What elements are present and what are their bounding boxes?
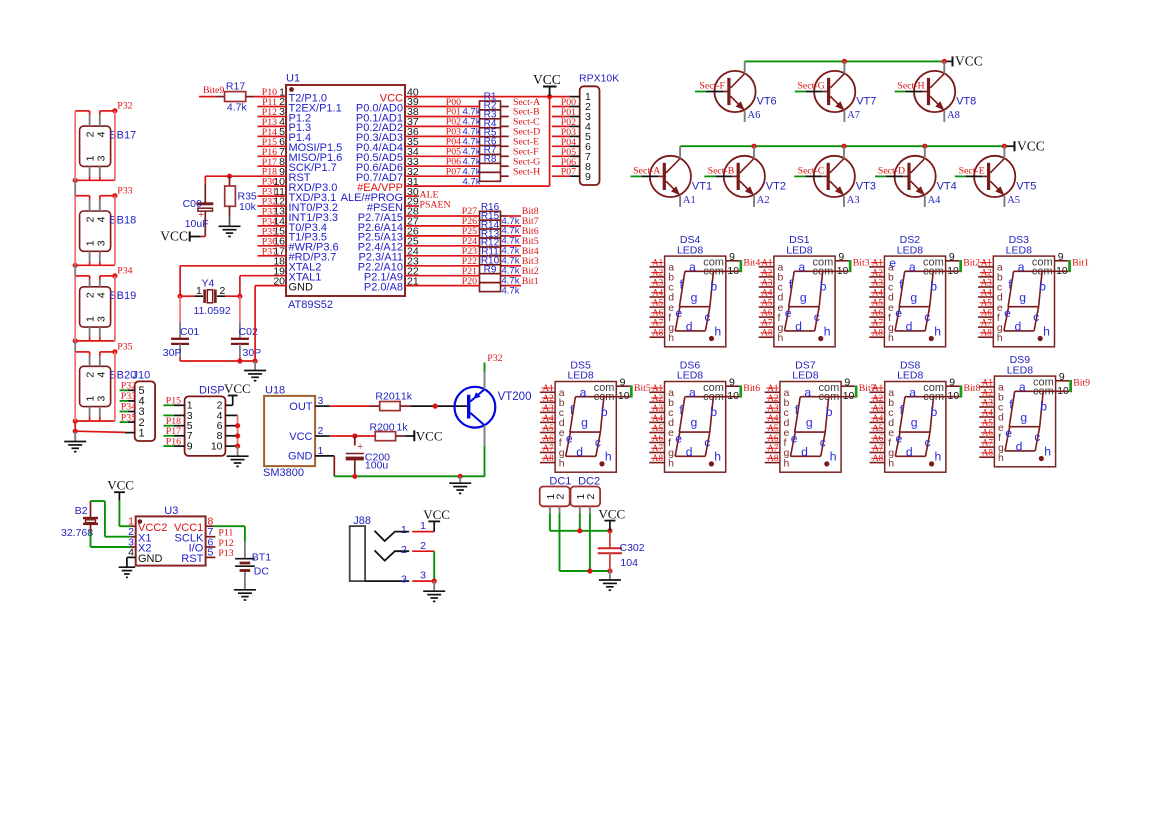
svg-text:A2: A2 (757, 195, 770, 206)
svg-text:VCC: VCC (224, 381, 251, 396)
svg-text:10: 10 (211, 441, 223, 453)
svg-text:h: h (1044, 444, 1051, 458)
svg-text:DC2: DC2 (578, 476, 600, 488)
svg-text:d: d (801, 445, 808, 459)
svg-text:h: h (668, 457, 674, 469)
svg-text:c: c (595, 435, 601, 449)
svg-text:a: a (909, 386, 916, 400)
svg-text:4: 4 (95, 372, 107, 378)
svg-text:g: g (800, 290, 807, 304)
svg-text:f: f (795, 403, 799, 417)
svg-text:VCC: VCC (598, 507, 625, 522)
svg-text:Bit1: Bit1 (1072, 258, 1089, 269)
svg-text:VCC: VCC (416, 428, 443, 443)
svg-text:A1: A1 (683, 195, 696, 206)
svg-text:g: g (1019, 290, 1026, 304)
svg-text:e: e (675, 432, 682, 446)
svg-text:LED8: LED8 (1007, 364, 1033, 376)
svg-text:VCC: VCC (289, 431, 312, 443)
svg-text:Sect-F: Sect-F (699, 81, 725, 92)
svg-text:3: 3 (95, 240, 107, 246)
svg-text:GND: GND (288, 451, 313, 463)
svg-text:2: 2 (555, 494, 567, 500)
svg-text:10k: 10k (239, 201, 257, 213)
svg-text:Bit6: Bit6 (743, 383, 760, 394)
svg-text:Sect-G: Sect-G (797, 81, 824, 92)
svg-text:9: 9 (1059, 371, 1065, 383)
svg-text:P35: P35 (121, 412, 136, 423)
svg-text:VCC: VCC (160, 229, 188, 244)
svg-text:h: h (997, 332, 1003, 344)
svg-text:9: 9 (949, 376, 955, 388)
svg-text:LED8: LED8 (897, 370, 923, 382)
svg-text:SB19: SB19 (109, 290, 136, 302)
svg-text:LED8: LED8 (677, 370, 703, 382)
svg-text:BT1: BT1 (252, 552, 271, 564)
svg-text:h: h (998, 452, 1004, 464)
svg-text:R8: R8 (484, 154, 497, 165)
svg-text:LED8: LED8 (567, 370, 593, 382)
svg-text:e: e (889, 256, 896, 270)
svg-text:LED8: LED8 (677, 244, 703, 256)
svg-text:d: d (1016, 440, 1023, 454)
svg-text:P13: P13 (218, 548, 233, 559)
svg-text:h: h (714, 450, 721, 464)
svg-text:d: d (906, 445, 913, 459)
svg-text:a: a (689, 386, 696, 400)
svg-text:32.768: 32.768 (61, 527, 93, 539)
svg-text:Sect-B: Sect-B (708, 166, 735, 177)
svg-text:A7: A7 (847, 110, 860, 121)
svg-text:VCC: VCC (107, 477, 134, 492)
svg-text:h: h (668, 332, 674, 344)
svg-text:R200: R200 (370, 422, 395, 434)
svg-text:P34: P34 (121, 402, 136, 413)
svg-text:P33: P33 (121, 391, 136, 402)
svg-text:a: a (909, 260, 916, 274)
svg-text:4.7k: 4.7k (227, 102, 248, 114)
svg-text:b: b (710, 280, 717, 294)
svg-text:U3: U3 (164, 505, 178, 517)
svg-text:RPX10K: RPX10K (579, 73, 619, 85)
svg-text:h: h (935, 450, 942, 464)
svg-text:VCC: VCC (533, 72, 561, 87)
svg-text:h: h (714, 324, 721, 338)
svg-text:b: b (1039, 280, 1046, 294)
svg-text:4.7k: 4.7k (502, 285, 520, 296)
svg-text:e: e (1004, 306, 1011, 320)
svg-text:g: g (691, 290, 698, 304)
svg-text:100u: 100u (365, 460, 389, 472)
svg-text:VT6: VT6 (757, 96, 777, 108)
svg-text:P35: P35 (117, 342, 132, 353)
svg-text:e: e (791, 432, 798, 446)
svg-text:4.7k: 4.7k (463, 176, 481, 187)
svg-text:h: h (888, 332, 894, 344)
svg-text:Bite9: Bite9 (203, 85, 224, 96)
svg-text:b: b (601, 405, 608, 419)
svg-text:A5: A5 (1007, 195, 1020, 206)
svg-text:e: e (896, 432, 903, 446)
svg-text:1k: 1k (397, 422, 409, 434)
svg-text:b: b (826, 405, 833, 419)
svg-text:P32: P32 (117, 101, 132, 112)
svg-text:h: h (888, 457, 894, 469)
svg-text:LED8: LED8 (792, 370, 818, 382)
svg-text:f: f (789, 277, 793, 291)
svg-text:OUT: OUT (289, 401, 313, 413)
svg-text:9: 9 (729, 376, 735, 388)
svg-text:RST: RST (181, 553, 203, 565)
svg-text:d: d (686, 320, 693, 334)
svg-text:AT89S52: AT89S52 (288, 299, 333, 311)
svg-text:g: g (581, 416, 588, 430)
svg-text:4: 4 (95, 216, 107, 222)
svg-text:c: c (820, 435, 826, 449)
svg-text:VT8: VT8 (956, 96, 976, 108)
svg-text:P15: P15 (166, 396, 181, 407)
svg-text:+: + (357, 441, 363, 453)
svg-text:g: g (691, 416, 698, 430)
svg-text:9: 9 (838, 251, 844, 263)
svg-text:b: b (1040, 400, 1047, 414)
svg-text:e: e (566, 432, 573, 446)
svg-text:e: e (675, 306, 682, 320)
svg-text:c: c (1033, 310, 1039, 324)
svg-text:b: b (931, 405, 938, 419)
svg-text:Sect-D: Sect-D (878, 166, 905, 177)
svg-text:9: 9 (844, 376, 850, 388)
svg-text:P20: P20 (462, 276, 477, 287)
svg-text:A8: A8 (947, 110, 960, 121)
svg-text:c: c (924, 310, 930, 324)
svg-text:VCC: VCC (1017, 138, 1045, 153)
svg-text:Bit2: Bit2 (963, 258, 980, 269)
svg-text:B2: B2 (75, 505, 88, 517)
svg-text:VT4: VT4 (937, 180, 957, 192)
svg-text:2: 2 (401, 544, 407, 556)
svg-text:f: f (1009, 397, 1013, 411)
svg-text:VT1: VT1 (692, 180, 712, 192)
svg-text:h: h (605, 450, 612, 464)
svg-text:Bit4: Bit4 (743, 258, 760, 269)
svg-text:P32: P32 (487, 353, 502, 364)
svg-text:LED8: LED8 (897, 244, 923, 256)
svg-text:Bit1: Bit1 (522, 276, 539, 287)
svg-text:P12: P12 (218, 538, 233, 549)
svg-text:Sect-H: Sect-H (513, 166, 540, 177)
svg-text:VT2: VT2 (766, 180, 786, 192)
svg-text:a: a (798, 260, 805, 274)
svg-text:h: h (778, 332, 784, 344)
svg-text:P07: P07 (561, 167, 576, 178)
svg-text:2: 2 (420, 540, 426, 552)
svg-text:P16: P16 (166, 436, 181, 447)
svg-text:10uF: 10uF (185, 218, 209, 230)
svg-text:SM3800: SM3800 (263, 467, 304, 479)
svg-text:DC: DC (254, 565, 270, 577)
svg-text:d: d (1015, 320, 1022, 334)
svg-text:11.0592: 11.0592 (194, 305, 231, 317)
svg-text:a: a (689, 260, 696, 274)
svg-text:g: g (911, 416, 918, 430)
svg-text:P32: P32 (121, 381, 136, 392)
svg-text:d: d (686, 445, 693, 459)
svg-text:h: h (1043, 324, 1050, 338)
svg-text:104: 104 (620, 557, 638, 569)
svg-text:9: 9 (585, 171, 591, 183)
svg-text:VT3: VT3 (856, 180, 876, 192)
svg-text:SB17: SB17 (109, 130, 136, 142)
svg-text:Bit9: Bit9 (1073, 378, 1090, 389)
svg-text:h: h (784, 457, 790, 469)
svg-text:1: 1 (420, 520, 426, 532)
svg-text:1k: 1k (401, 390, 413, 402)
svg-text:Sect-H: Sect-H (897, 81, 924, 92)
svg-text:VT7: VT7 (856, 96, 876, 108)
svg-text:c: c (704, 310, 710, 324)
svg-text:c: c (1034, 430, 1040, 444)
svg-text:d: d (906, 320, 913, 334)
svg-text:C01: C01 (180, 326, 199, 338)
svg-text:2: 2 (585, 494, 597, 500)
svg-text:3: 3 (95, 155, 107, 161)
svg-text:VT200: VT200 (498, 391, 532, 403)
svg-text:Sect-C: Sect-C (798, 166, 825, 177)
svg-text:LED8: LED8 (786, 244, 812, 256)
svg-text:R17: R17 (226, 81, 245, 93)
svg-text:a: a (1019, 380, 1026, 394)
svg-text:VT5: VT5 (1016, 180, 1036, 192)
svg-text:9: 9 (620, 376, 626, 388)
svg-text:a: a (1018, 260, 1025, 274)
svg-text:Sect-A: Sect-A (633, 166, 660, 177)
svg-text:A3: A3 (847, 195, 860, 206)
svg-text:Bit8: Bit8 (964, 383, 981, 394)
svg-text:h: h (934, 324, 941, 338)
svg-text:a: a (804, 386, 811, 400)
svg-text:Bit5: Bit5 (634, 383, 651, 394)
svg-text:d: d (576, 445, 583, 459)
svg-text:C00: C00 (183, 198, 202, 210)
svg-text:a: a (580, 386, 587, 400)
svg-text:g: g (1020, 410, 1027, 424)
svg-text:C302: C302 (620, 542, 645, 554)
svg-text:Y4: Y4 (202, 278, 215, 290)
svg-text:g: g (806, 416, 813, 430)
svg-text:P34: P34 (117, 266, 132, 277)
svg-text:PSAEN: PSAEN (420, 200, 451, 211)
svg-text:R9: R9 (484, 264, 497, 275)
svg-text:1: 1 (139, 427, 145, 439)
svg-text:30P: 30P (163, 347, 182, 359)
svg-text:9: 9 (949, 251, 955, 263)
svg-text:b: b (710, 405, 717, 419)
svg-text:30P: 30P (243, 347, 262, 359)
svg-text:9: 9 (729, 251, 735, 263)
svg-text:b: b (930, 280, 937, 294)
svg-text:c: c (814, 310, 820, 324)
svg-text:9: 9 (1058, 251, 1064, 263)
svg-text:9: 9 (187, 441, 193, 453)
svg-text:P33: P33 (117, 186, 132, 197)
svg-text:4: 4 (95, 292, 107, 298)
svg-text:J88: J88 (353, 515, 371, 527)
svg-text:P2.0/A8: P2.0/A8 (364, 281, 403, 293)
svg-text:A4: A4 (928, 195, 942, 206)
svg-text:P07: P07 (446, 166, 461, 177)
svg-text:1: 1 (401, 524, 407, 536)
svg-text:3: 3 (420, 570, 426, 582)
svg-text:2: 2 (220, 285, 226, 297)
svg-text:VCC: VCC (955, 54, 983, 69)
svg-text:SB18: SB18 (109, 214, 136, 226)
svg-text:LED8: LED8 (1006, 244, 1032, 256)
svg-text:e: e (785, 306, 792, 320)
svg-text:Sect-E: Sect-E (959, 166, 985, 177)
svg-text:c: c (704, 435, 710, 449)
svg-text:e: e (895, 306, 902, 320)
svg-text:f: f (899, 277, 903, 291)
svg-text:h: h (559, 457, 565, 469)
svg-text:e: e (1005, 426, 1012, 440)
svg-text:4: 4 (95, 131, 107, 137)
svg-text:h: h (830, 450, 837, 464)
svg-text:3: 3 (95, 316, 107, 322)
svg-text:d: d (795, 320, 802, 334)
svg-text:3: 3 (95, 396, 107, 402)
svg-text:VCC: VCC (423, 507, 450, 522)
svg-text:3: 3 (401, 574, 407, 586)
svg-text:GND: GND (289, 281, 314, 293)
svg-text:DISP: DISP (199, 384, 225, 396)
svg-text:U1: U1 (286, 73, 300, 85)
svg-text:R201: R201 (375, 390, 400, 402)
svg-text:DC1: DC1 (549, 476, 571, 488)
svg-text:c: c (925, 435, 931, 449)
svg-text:U18: U18 (265, 384, 285, 396)
svg-text:g: g (910, 290, 917, 304)
svg-text:h: h (824, 324, 831, 338)
svg-text:GND: GND (138, 553, 163, 565)
svg-text:A6: A6 (748, 110, 761, 121)
svg-text:Bit3: Bit3 (853, 258, 870, 269)
svg-text:b: b (820, 280, 827, 294)
